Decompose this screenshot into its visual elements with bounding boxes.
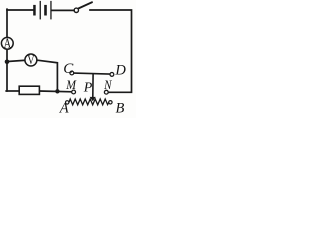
wire bottom (corner to resistor R left) (6, 90, 19, 92)
rheostat wire end circle B (109, 101, 112, 104)
ammeter A circle (1, 37, 13, 49)
battery cell 1 long thin plate (40, 1, 41, 20)
wire left vertical (ammeter through junction to bottom-left corner) (6, 50, 8, 91)
wire voltmeter branch right and down to bottom junction (37, 60, 57, 91)
wire voltmeter branch left (8, 60, 25, 61)
wire bottom (resistor R right to terminal M) (39, 90, 71, 93)
rheostat wiper P stem (92, 74, 94, 98)
voltmeter V circle (25, 54, 37, 66)
rheostat slider bar C-D (74, 73, 111, 74)
junction dot left (voltmeter branch tap) (5, 60, 10, 65)
junction dot bottom (voltmeter branch rejoin) (55, 89, 59, 93)
wire battery to switch (52, 9, 74, 11)
battery cell 2 long thin plate (50, 1, 51, 20)
battery cell 1 short thick plate (33, 5, 36, 16)
terminal N circle (104, 90, 108, 94)
svg-text:V: V (27, 54, 35, 67)
svg-text:C: C (63, 61, 74, 77)
terminal M circle (72, 90, 76, 94)
svg-text:D: D (114, 62, 126, 78)
svg-text:M: M (65, 77, 76, 92)
wire switch to top-right corner, right vertical, down to terminal N (90, 10, 132, 92)
terminal C circle (70, 71, 74, 75)
svg-text:B: B (116, 101, 125, 117)
wire top-left segment (7, 9, 33, 11)
svg-text:N: N (103, 77, 112, 92)
switch S lever (open) (79, 2, 92, 8)
svg-text:A: A (59, 101, 69, 117)
rheostat wiper P arrowhead (90, 97, 96, 101)
rheostat resistance wire zigzag A-B (69, 99, 109, 105)
switch S pivot circle (74, 8, 78, 12)
resistor R box (19, 86, 39, 94)
rheostat wire end circle A (66, 101, 69, 104)
wire left vertical top (corner to ammeter) (6, 9, 8, 37)
battery cell 2 short thick plate (44, 5, 47, 16)
terminal D circle (110, 73, 114, 77)
svg-text:P: P (83, 81, 93, 96)
svg-text:A: A (4, 35, 11, 51)
